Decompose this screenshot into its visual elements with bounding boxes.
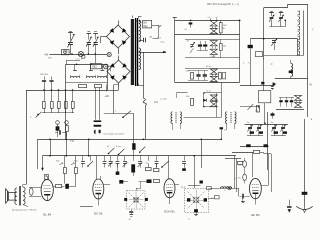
svg-text:ZRK 561 Smaragd Bl. 2 — g: ZRK 561 Smaragd Bl. 2 — g <box>207 3 239 6</box>
svg-text:W: W <box>223 28 225 30</box>
svg-text:1,5k: 1,5k <box>238 165 242 167</box>
svg-text:EF 80: EF 80 <box>251 213 259 217</box>
svg-text:Umschalter auf 220V~: Umschalter auf 220V~ <box>104 133 126 136</box>
svg-text:40k: 40k <box>186 96 189 98</box>
svg-text:ZF II: ZF II <box>181 187 186 189</box>
svg-text:AM: AM <box>45 54 49 57</box>
svg-text:OB2: OB2 <box>92 67 97 69</box>
svg-text:300 300: 300 300 <box>40 74 49 76</box>
svg-text:×: × <box>311 118 313 122</box>
svg-text:7.: 7. <box>312 28 314 32</box>
svg-text:2p: 2p <box>247 122 249 124</box>
svg-text:EL 84: EL 84 <box>43 213 51 217</box>
svg-text:10A: 10A <box>154 101 159 104</box>
svg-text:+40: +40 <box>105 95 110 98</box>
svg-text:EC 92: EC 92 <box>94 212 103 216</box>
svg-text:12k: 12k <box>238 178 241 180</box>
svg-text:d1 d2: d1 d2 <box>211 56 217 58</box>
svg-text:8 mm: 8 mm <box>116 146 121 148</box>
svg-text:100: 100 <box>223 46 226 48</box>
svg-text:ECH 81: ECH 81 <box>164 210 175 214</box>
svg-text:2p: 2p <box>271 122 273 124</box>
svg-text:4,7k: 4,7k <box>186 71 190 73</box>
svg-text:Ausgangstransf. 7352-29: Ausgangstransf. 7352-29 <box>12 209 37 212</box>
svg-text:4%: 4% <box>187 41 190 43</box>
svg-text:(+ 4%): (+ 4%) <box>160 99 167 101</box>
svg-text:7 W: 7 W <box>70 140 75 143</box>
svg-text:50µ: 50µ <box>143 25 148 28</box>
svg-text:b1 b2: b1 b2 <box>206 66 212 68</box>
svg-text:Kl.: Kl. <box>107 146 110 148</box>
svg-text:a b c d: a b c d <box>76 59 83 61</box>
